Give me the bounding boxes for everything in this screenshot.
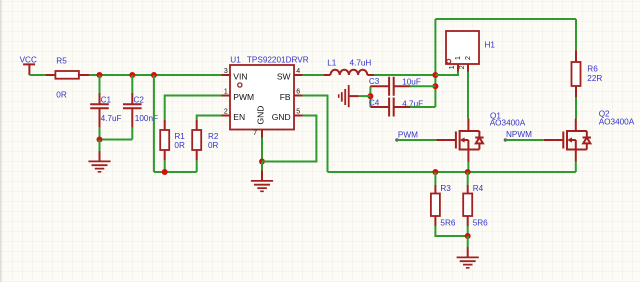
svg-text:2: 2 — [224, 108, 228, 115]
wire C3/C4 left vertical — [369, 86, 371, 107]
power symbol VCC — [20, 56, 37, 76]
wire R6 to Q2 drain — [575, 97, 577, 119]
wire R2 to U1 EN — [197, 116, 222, 121]
ground (U1 pin 7) — [251, 171, 273, 193]
svg-text:R4: R4 — [473, 184, 484, 193]
wire NPWM to Q2 gate — [506, 139, 544, 141]
node rail-C1 — [97, 72, 103, 78]
svg-text:R2: R2 — [208, 132, 219, 141]
net label PWM — [395, 131, 418, 142]
svg-text:EN: EN — [233, 112, 245, 122]
node C3 right — [432, 83, 438, 89]
svg-text:R6: R6 — [587, 65, 598, 74]
resistor R2 — [192, 120, 219, 160]
svg-text:C4: C4 — [369, 99, 380, 108]
svg-text:U1: U1 — [230, 55, 241, 64]
svg-text:4: 4 — [296, 68, 300, 75]
wire top rail — [435, 19, 576, 50]
capacitor C3 — [369, 77, 421, 96]
svg-text:C2: C2 — [134, 96, 145, 105]
svg-text:AO3400A: AO3400A — [490, 118, 526, 127]
wire to bottom ground — [467, 236, 469, 247]
node R1 bottom — [162, 169, 168, 175]
header H1 — [446, 31, 495, 72]
resistor R4 — [463, 184, 488, 227]
wire L1 to node — [374, 74, 435, 76]
node rail-pullups — [151, 72, 157, 78]
node C1-gnd — [97, 137, 103, 143]
svg-text:1: 1 — [224, 88, 228, 95]
svg-text:VCC: VCC — [20, 56, 37, 65]
inductor L1 — [324, 59, 374, 76]
wire to ground — [99, 140, 101, 152]
wire to left ground — [359, 95, 371, 97]
capacitor C4 — [369, 98, 423, 117]
wire R1 to U1 PWM — [165, 96, 222, 121]
wire Q1 source — [467, 162, 469, 173]
svg-text:AO3400A: AO3400A — [599, 118, 635, 127]
wire GND5 to pin7 node — [262, 116, 316, 162]
wire U1 FB to source line — [303, 96, 328, 173]
transistor Q2 — [544, 119, 591, 162]
node rail-C2 — [129, 72, 135, 78]
resistor R6 — [572, 50, 603, 97]
svg-text:C3: C3 — [369, 77, 380, 86]
wire source line — [328, 171, 576, 173]
wire main vertical — [434, 19, 436, 107]
ground (C1/C2) — [88, 151, 110, 173]
svg-text:10uF: 10uF — [402, 78, 421, 87]
wire VCC to R1/R2 bottoms — [154, 75, 197, 172]
svg-text:GND: GND — [272, 112, 291, 122]
svg-text:PWM: PWM — [398, 131, 418, 140]
wire C1 bottom to C2 bottom — [100, 128, 133, 140]
svg-text:0R: 0R — [208, 141, 219, 150]
svg-text:TPS92201DRVR: TPS92201DRVR — [247, 55, 309, 64]
svg-text:PWM: PWM — [233, 92, 254, 102]
svg-text:L1: L1 — [327, 59, 337, 68]
svg-text:5: 5 — [296, 108, 300, 115]
svg-text:1: 1 — [449, 65, 456, 69]
svg-text:5R6: 5R6 — [473, 218, 488, 227]
capacitor C1 — [90, 93, 121, 128]
svg-text:R1: R1 — [174, 132, 185, 141]
node R4 top — [465, 169, 471, 175]
wire U1 SW to L1 — [303, 74, 325, 76]
ground (R3/R4) — [457, 247, 479, 269]
resistor R3 — [431, 184, 456, 227]
svg-text:3: 3 — [224, 68, 228, 75]
capacitor C2 — [123, 93, 158, 128]
resistor R1 — [160, 120, 185, 160]
wire C3 right — [410, 85, 435, 87]
svg-text:SW: SW — [277, 72, 291, 82]
wire R4 top — [467, 172, 469, 185]
wire C4 right — [410, 106, 435, 108]
IC U1 TPS92201DRVR — [222, 55, 309, 137]
ground (C3/C4, rotated left) — [338, 85, 359, 107]
wire R3 top — [434, 172, 436, 185]
wire H1 pin2 to Q1 drain — [467, 72, 469, 119]
svg-text:5R6: 5R6 — [440, 218, 455, 227]
svg-text:NPWM: NPWM — [506, 130, 532, 139]
wire C1 top — [99, 75, 101, 93]
node pin7 — [259, 159, 265, 165]
svg-text:VIN: VIN — [233, 72, 247, 82]
svg-text:2: 2 — [459, 65, 466, 69]
net label NPWM — [504, 130, 532, 142]
svg-text:0R: 0R — [56, 91, 67, 100]
transistor Q1 — [436, 119, 483, 162]
wire Q2 source — [575, 162, 577, 173]
svg-text:4.7uH: 4.7uH — [350, 59, 372, 68]
wire VCC rail to U1 VIN — [89, 74, 222, 76]
svg-text:0R: 0R — [174, 141, 185, 150]
node gnd bottom — [465, 233, 471, 239]
svg-text:H1: H1 — [485, 41, 496, 50]
svg-text:4.7uF: 4.7uF — [101, 114, 122, 123]
svg-text:2: 2 — [465, 56, 472, 60]
wire C2 top — [131, 75, 133, 93]
wire PWM to Q1 gate — [397, 139, 436, 141]
svg-text:R5: R5 — [56, 57, 67, 66]
svg-text:1: 1 — [455, 56, 462, 60]
node gnd-caps — [367, 93, 373, 99]
svg-text:GND: GND — [256, 106, 266, 125]
svg-text:6: 6 — [296, 88, 300, 95]
svg-text:C1: C1 — [101, 96, 112, 105]
node R3 top — [432, 169, 438, 175]
wire U1 pin7 down — [261, 138, 263, 162]
svg-text:7: 7 — [253, 130, 257, 137]
wire H1 pin1 to node — [435, 72, 458, 76]
svg-text:FB: FB — [280, 92, 291, 102]
svg-text:22R: 22R — [587, 74, 602, 83]
resistor R5 — [46, 57, 89, 100]
svg-text:R3: R3 — [440, 184, 451, 193]
node L1/H1 — [432, 72, 438, 78]
wire R3/R4 bottoms — [435, 226, 467, 236]
wire VCC to R5 — [29, 74, 45, 76]
wire pin7 node to ground — [261, 162, 263, 171]
